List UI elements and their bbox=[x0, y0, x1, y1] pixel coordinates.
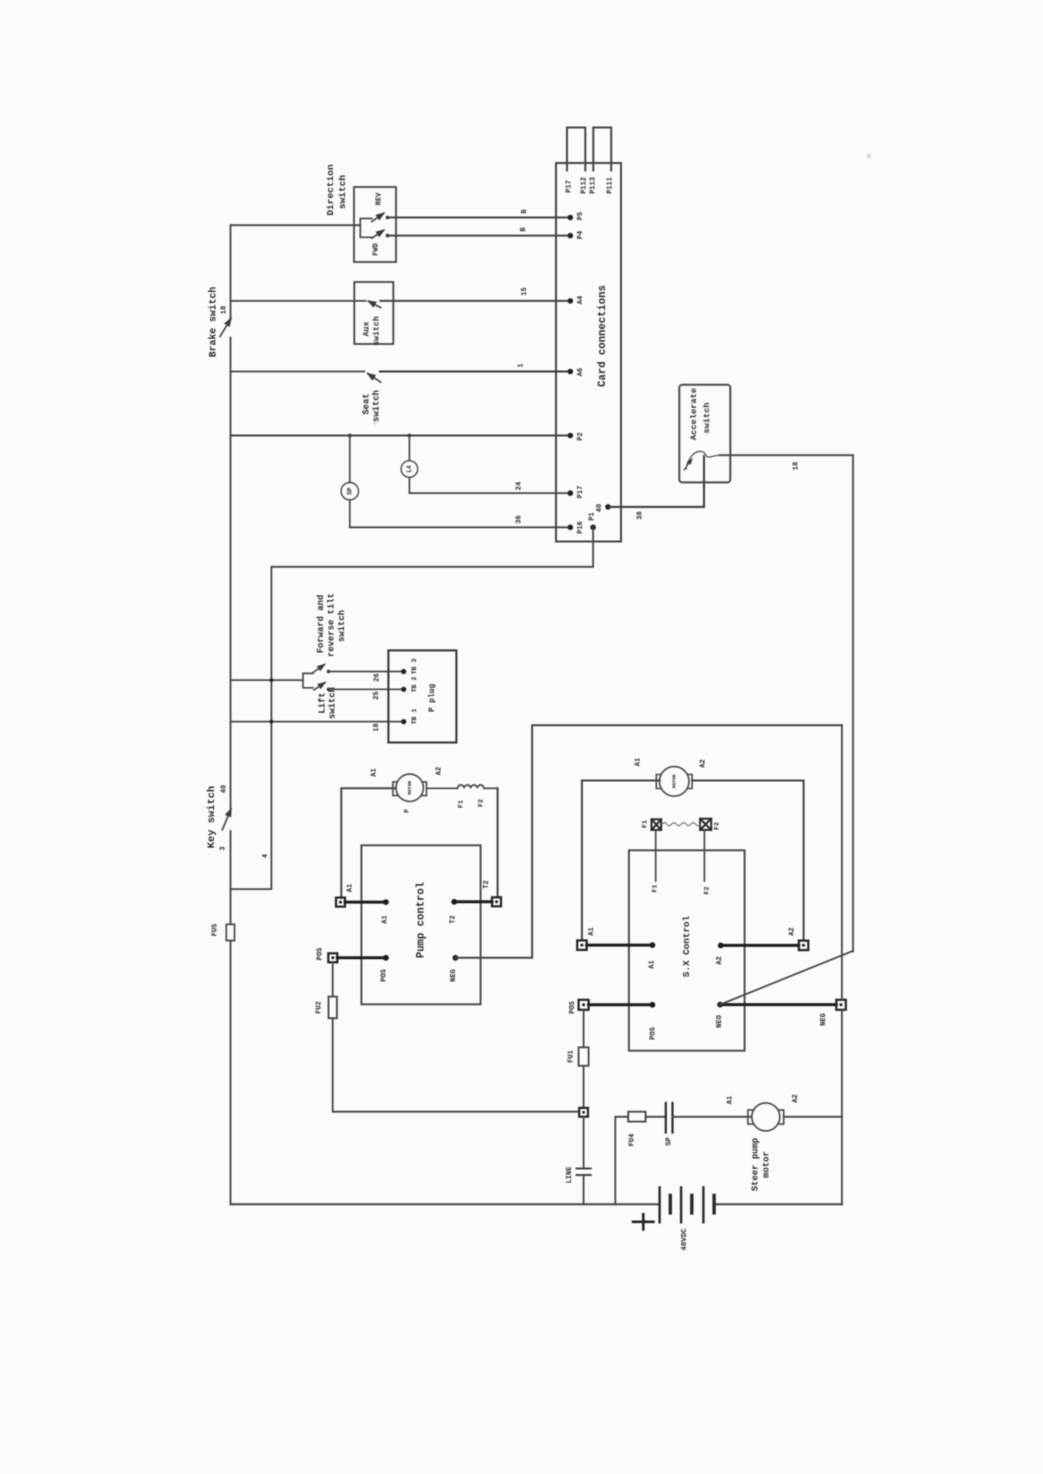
wire accelerate to pin 40 bbox=[610, 456, 704, 520]
P plug pin TB1 bbox=[401, 709, 418, 725]
svg-text:Card connections: Card connections bbox=[597, 285, 609, 387]
wire REV to pin P5 bbox=[388, 209, 568, 218]
svg-text:A1: A1 bbox=[648, 960, 656, 968]
terminal POS pump bbox=[316, 948, 337, 963]
svg-text:18: 18 bbox=[373, 723, 381, 731]
SX pin POS bbox=[649, 1002, 657, 1040]
svg-text:38: 38 bbox=[636, 511, 644, 519]
wire FU2 to POS junction bbox=[333, 1018, 579, 1111]
pin P17b bbox=[568, 486, 585, 499]
pump pin T2 bbox=[449, 899, 457, 924]
wire SP to steer motor bbox=[673, 1116, 752, 1118]
neg bus vertical lower bbox=[841, 1010, 843, 1205]
pump control box bbox=[361, 845, 480, 1004]
svg-text:FU1: FU1 bbox=[567, 1050, 575, 1063]
wire steer motor to neg bus bbox=[784, 1116, 842, 1118]
svg-text:A4: A4 bbox=[577, 296, 585, 304]
pump motor terminal label A1 bbox=[370, 768, 378, 776]
wire FU4 to SP capacitor bbox=[646, 1116, 666, 1118]
scan speck bbox=[867, 154, 872, 159]
svg-text:Direction: Direction bbox=[325, 164, 336, 216]
svg-text:Seat: Seat bbox=[361, 393, 371, 414]
steer branch riser bbox=[615, 1117, 628, 1205]
wire aux switch to pin A4 bbox=[380, 287, 567, 301]
wire pump NEG to SX neg bus bbox=[455, 725, 842, 958]
svg-text:24: 24 bbox=[515, 482, 523, 490]
fuse FU5 bbox=[211, 924, 234, 941]
wire accelerate output right bbox=[720, 455, 854, 951]
bold wire T2 terminal to pin bbox=[454, 900, 492, 903]
pin P1 bbox=[588, 512, 596, 530]
capacitor SP bbox=[665, 1103, 673, 1146]
SX motor loop left wire bbox=[582, 781, 660, 941]
wire left bus below key switch bbox=[230, 831, 232, 924]
svg-text:motor: motor bbox=[761, 1151, 771, 1178]
svg-text:switch: switch bbox=[337, 610, 347, 642]
bold wire SX A1 terminal to pin bbox=[587, 944, 653, 947]
svg-text:P2: P2 bbox=[577, 432, 585, 440]
SX field labels F1 F2 inner bbox=[651, 885, 710, 895]
seat switch contact bbox=[368, 374, 381, 383]
SX motor M2 bbox=[656, 767, 692, 797]
pin A6 bbox=[568, 368, 585, 376]
accelerate switch wiper bbox=[684, 451, 720, 470]
fuse FU2 bbox=[315, 963, 337, 1019]
tilt switch common bracket bbox=[303, 673, 313, 687]
wire junction to LINE bbox=[583, 1117, 585, 1168]
junction bus TB1 bbox=[270, 720, 274, 724]
svg-text:A1: A1 bbox=[346, 884, 354, 892]
svg-text:switch: switch bbox=[337, 175, 348, 210]
svg-text:Brake switch: Brake switch bbox=[208, 287, 219, 358]
wire SP to pin P16 bbox=[350, 515, 568, 527]
svg-text:A1: A1 bbox=[726, 1096, 734, 1104]
svg-text:P5: P5 bbox=[577, 212, 585, 220]
direction switch common bracket bbox=[360, 219, 372, 238]
svg-text:switch: switch bbox=[702, 402, 712, 433]
pump field labels F1 F2 bbox=[457, 799, 484, 808]
SX pin A1 bbox=[648, 942, 656, 969]
pump pin NEG bbox=[450, 955, 458, 982]
fuse FU4 bbox=[628, 1112, 645, 1147]
SX field terminal F1 bbox=[652, 819, 662, 830]
SX motor label MOTOR bbox=[671, 774, 677, 788]
pump motor label MOTOR bbox=[407, 781, 413, 795]
brake switch bbox=[208, 287, 231, 358]
svg-text:P16: P16 bbox=[577, 521, 585, 534]
wire lift contact to P plug TB2 bbox=[329, 689, 404, 699]
svg-text:LINE: LINE bbox=[566, 1167, 574, 1184]
svg-text:15: 15 bbox=[521, 287, 529, 295]
svg-text:S.X Control: S.X Control bbox=[681, 915, 692, 977]
terminal A1 pump bbox=[336, 884, 354, 907]
direction switch REV contact bbox=[372, 192, 390, 222]
battery 48VDC bbox=[660, 1187, 715, 1222]
horn SP on P16 branch bbox=[341, 436, 358, 528]
wire pin P1 net to key bus bbox=[231, 527, 594, 889]
fuse FU1 bbox=[567, 1047, 588, 1066]
connector tab P17/P112 bbox=[567, 128, 585, 171]
svg-text:1: 1 bbox=[517, 363, 525, 367]
svg-text:A1: A1 bbox=[588, 927, 596, 935]
pump field coil F1-F2 bbox=[427, 785, 498, 788]
wire left bus middle segment bbox=[230, 338, 232, 809]
card connections box U1 bbox=[556, 163, 621, 542]
svg-text:L4: L4 bbox=[406, 465, 413, 473]
pin label P17 bbox=[565, 180, 573, 193]
steer motor terminal label A2 bbox=[792, 1094, 800, 1102]
svg-text:A2: A2 bbox=[700, 759, 708, 767]
svg-text:48VDC: 48VDC bbox=[681, 1228, 689, 1251]
svg-text:POS: POS bbox=[569, 1001, 577, 1014]
wire left bus top segment bbox=[230, 225, 232, 318]
wire bus to pin P2 bbox=[231, 435, 568, 437]
pump motor terminal label A2 bbox=[436, 767, 444, 775]
terminal NEG SX bbox=[820, 1000, 846, 1026]
svg-text:Pump control: Pump control bbox=[415, 882, 427, 958]
label 4 on P1 net bbox=[262, 854, 270, 858]
SX pin A2 bbox=[716, 943, 724, 965]
svg-text:A2: A2 bbox=[436, 767, 444, 775]
wire bus to tilt switch common bbox=[231, 679, 304, 681]
pump motor label P bbox=[404, 809, 411, 813]
svg-text:P111: P111 bbox=[606, 177, 614, 194]
battery label 48VDC bbox=[681, 1228, 689, 1251]
pin A4 bbox=[568, 296, 585, 304]
SX motor terminal label A1 bbox=[634, 758, 642, 766]
svg-text:POS: POS bbox=[316, 948, 324, 961]
SX motor loop right wire bbox=[692, 781, 804, 941]
SX field labels F1 F2 outer bbox=[641, 820, 720, 830]
svg-text:P17: P17 bbox=[565, 180, 573, 193]
svg-text:3: 3 bbox=[219, 846, 227, 850]
svg-text:NEO: NEO bbox=[716, 1015, 724, 1028]
bold wire A1 terminal to pin bbox=[345, 901, 386, 904]
svg-text:NEG: NEG bbox=[820, 1013, 828, 1026]
svg-text:FU5: FU5 bbox=[211, 924, 219, 937]
pump pin A1 bbox=[381, 899, 389, 924]
svg-text:P: P bbox=[404, 809, 411, 813]
aux switch box bbox=[354, 282, 393, 346]
wire FU1 chain from SX POS bbox=[583, 1010, 585, 1048]
bottom power wire bbox=[231, 1203, 660, 1205]
pin P16 bbox=[568, 521, 585, 534]
svg-text:NEG: NEG bbox=[450, 969, 458, 982]
SX field terminal F2 bbox=[700, 819, 711, 830]
svg-text:POS: POS bbox=[649, 1027, 657, 1040]
svg-text:F2: F2 bbox=[713, 822, 720, 830]
svg-text:P112: P112 bbox=[580, 177, 588, 194]
direction switch box bbox=[325, 164, 396, 262]
label Card connections bbox=[597, 285, 609, 387]
wire L to pin P17 bbox=[409, 482, 567, 493]
svg-text:switch: switch bbox=[371, 390, 381, 422]
seat switch bbox=[361, 390, 381, 422]
P plug pin TB3 bbox=[401, 659, 418, 675]
lift switch contact bbox=[314, 683, 330, 692]
svg-text:F1: F1 bbox=[651, 885, 658, 893]
wire seat switch to pin A6 bbox=[380, 363, 568, 371]
svg-text:P plug: P plug bbox=[429, 684, 437, 712]
svg-text:A2: A2 bbox=[788, 927, 796, 935]
svg-text:A1: A1 bbox=[370, 768, 378, 776]
junction terminal POS bus bbox=[579, 1108, 588, 1117]
terminal POS SX bbox=[569, 1000, 589, 1014]
forward tilt contact bbox=[313, 665, 330, 674]
pump motor M1 bbox=[393, 774, 427, 801]
steer pump motor M3 bbox=[748, 1103, 784, 1131]
wire bus to direction switch bbox=[231, 224, 361, 226]
svg-text:40: 40 bbox=[596, 504, 604, 512]
svg-text:B: B bbox=[520, 227, 528, 232]
svg-text:18: 18 bbox=[220, 306, 228, 314]
svg-text:A1: A1 bbox=[634, 758, 642, 766]
pin label P112 bbox=[580, 177, 588, 194]
diagonal wire to SX NEG pin bbox=[720, 951, 853, 1005]
LINE connector bbox=[566, 1167, 591, 1184]
svg-text:switch: switch bbox=[327, 687, 337, 719]
P plug box bbox=[388, 650, 456, 742]
svg-text:F1: F1 bbox=[641, 820, 648, 828]
SX pin NEG bbox=[716, 1002, 724, 1028]
svg-text:P1: P1 bbox=[588, 512, 596, 520]
bold wire SX POS terminal to pin bbox=[589, 1003, 653, 1006]
svg-text:Key switch: Key switch bbox=[206, 786, 218, 848]
svg-text:18: 18 bbox=[792, 462, 800, 470]
junction P2 SP branch bbox=[348, 434, 352, 438]
bold wire SX NEG pin to terminal bbox=[720, 1003, 836, 1006]
bold wire POS terminal to pin bbox=[337, 956, 386, 959]
neg bus vertical upper bbox=[841, 725, 843, 1000]
direction switch FWD contact bbox=[372, 230, 390, 256]
svg-text:F2: F2 bbox=[477, 799, 484, 807]
scan speck 2 bbox=[373, 421, 377, 425]
SX field winding wavy link bbox=[662, 823, 700, 826]
terminal T2 pump bbox=[483, 880, 501, 906]
wire LINE to battery bus bbox=[583, 1176, 585, 1204]
P plug pin TB2 bbox=[401, 677, 418, 693]
junction bus tilt bbox=[270, 678, 274, 682]
svg-text:reverse tilt: reverse tilt bbox=[326, 593, 336, 657]
svg-text:F2: F2 bbox=[703, 887, 710, 895]
svg-text:A6: A6 bbox=[577, 368, 585, 376]
pin P5 bbox=[568, 212, 585, 221]
svg-text:Steer pump: Steer pump bbox=[750, 1138, 760, 1191]
terminal A1 SX bbox=[577, 927, 596, 950]
pump motor loop left wire bbox=[341, 788, 395, 898]
svg-text:40: 40 bbox=[220, 785, 228, 793]
svg-text:REV: REV bbox=[375, 192, 383, 205]
svg-text:MOTOR: MOTOR bbox=[407, 781, 413, 795]
wire left bus bottom segment bbox=[230, 941, 232, 1205]
svg-text:A2: A2 bbox=[792, 1094, 800, 1102]
SX control box bbox=[629, 850, 745, 1050]
svg-text:Accelerate: Accelerate bbox=[689, 388, 699, 440]
bottom power wire right of battery bbox=[714, 1203, 842, 1205]
pump pin POS bbox=[380, 955, 388, 982]
svg-text:P113: P113 bbox=[589, 177, 597, 194]
pin P2 bbox=[568, 432, 585, 440]
svg-text:FWD: FWD bbox=[372, 243, 380, 256]
SX motor terminal label A2 bbox=[700, 759, 708, 767]
pin label P113 bbox=[589, 177, 597, 194]
label lift switch bbox=[317, 687, 337, 719]
key switch bbox=[206, 785, 231, 851]
lamp L on P17 branch bbox=[401, 436, 418, 494]
svg-text:switch: switch bbox=[372, 316, 382, 346]
steer motor terminal label A1 bbox=[726, 1096, 734, 1104]
svg-text:SP: SP bbox=[346, 487, 353, 495]
svg-text:26: 26 bbox=[373, 673, 381, 681]
svg-text:36: 36 bbox=[515, 515, 523, 523]
connector tab P113/P111 bbox=[593, 128, 611, 171]
pin 40 bbox=[596, 504, 611, 512]
svg-text:P4: P4 bbox=[577, 231, 585, 239]
svg-text:Lift: Lift bbox=[317, 692, 327, 713]
svg-text:SP: SP bbox=[665, 1137, 673, 1145]
wire bus to aux switch bbox=[231, 300, 366, 302]
svg-text:25: 25 bbox=[373, 691, 381, 699]
wire bus to seat switch bbox=[231, 371, 365, 373]
battery plus sign bbox=[633, 1214, 654, 1229]
svg-text:Aux: Aux bbox=[363, 322, 372, 337]
svg-text:A1: A1 bbox=[381, 915, 389, 923]
wire FU1 to junction bbox=[583, 1066, 585, 1108]
pin P4 bbox=[568, 231, 585, 239]
pump motor loop right wire bbox=[497, 788, 499, 897]
svg-text:4: 4 bbox=[262, 854, 270, 858]
wire bus to P plug TB1 bbox=[231, 722, 404, 732]
accelerate switch box bbox=[679, 385, 730, 483]
svg-text:F1: F1 bbox=[457, 800, 464, 808]
svg-text:FU2: FU2 bbox=[315, 1001, 323, 1014]
svg-text:P17: P17 bbox=[577, 486, 585, 499]
svg-text:Forward and: Forward and bbox=[316, 595, 326, 654]
svg-text:POS: POS bbox=[380, 969, 388, 982]
bold wire SX A2 pin to terminal bbox=[721, 944, 799, 947]
svg-text:TB 3: TB 3 bbox=[411, 659, 418, 675]
wire tilt contact to P plug TB3 bbox=[329, 672, 404, 682]
svg-text:B: B bbox=[521, 209, 529, 214]
svg-text:TB 2: TB 2 bbox=[411, 677, 418, 693]
junction P2 L branch bbox=[408, 434, 412, 438]
svg-text:FU4: FU4 bbox=[628, 1134, 636, 1147]
svg-text:T2: T2 bbox=[483, 880, 491, 888]
svg-text:TB 1: TB 1 bbox=[411, 709, 418, 725]
SX field stub wires into box bbox=[656, 830, 705, 881]
label steer pump motor bbox=[750, 1138, 771, 1191]
aux switch contact bbox=[368, 301, 380, 308]
svg-text:MOTOR: MOTOR bbox=[671, 774, 677, 788]
pin label P111 bbox=[606, 177, 614, 194]
label forward and reverse tilt switch bbox=[316, 593, 347, 657]
wire FWD to pin P4 bbox=[388, 227, 568, 236]
svg-text:A2: A2 bbox=[716, 956, 724, 964]
svg-text:T2: T2 bbox=[449, 915, 457, 923]
terminal A2 SX bbox=[788, 927, 808, 950]
